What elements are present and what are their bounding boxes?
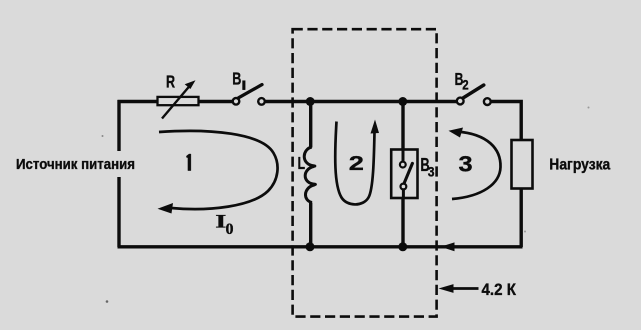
svg-text:R: R — [166, 73, 175, 93]
svg-text:L: L — [298, 154, 305, 174]
svg-text:4.2 К: 4.2 К — [482, 281, 517, 299]
svg-text:Нагрузка: Нагрузка — [549, 156, 610, 173]
svg-text:2: 2 — [349, 152, 364, 175]
svg-text:3: 3 — [428, 164, 435, 180]
svg-text:3: 3 — [459, 153, 473, 177]
svg-text:0: 0 — [226, 221, 234, 238]
svg-text:B: B — [232, 69, 241, 89]
svg-text:Источник питания: Источник питания — [16, 156, 135, 173]
svg-text:2: 2 — [462, 78, 468, 93]
